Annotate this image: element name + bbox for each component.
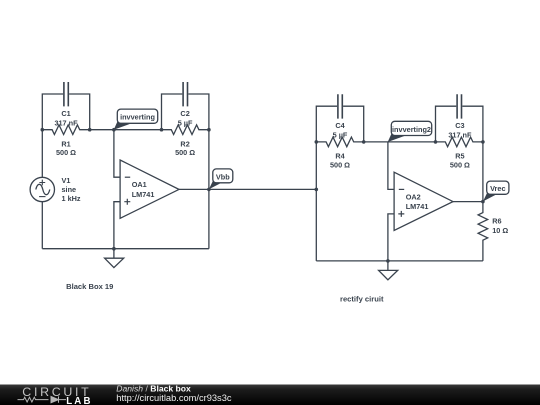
wire: V1 bottom lead [41,202,43,249]
resistor R2 [162,125,209,135]
node dot: R5/C3 left [434,140,438,144]
wire: R1 node to inverting node to R2 [90,129,162,131]
resistor R4 [316,137,363,147]
wire: C2 parallel loop [162,94,209,130]
svg-text:5 µF: 5 µF [333,131,348,140]
svg-text:invverting2: invverting2 [392,125,431,134]
node dot: Vbb at right block [315,188,319,192]
svg-text:rectify ciruit: rectify ciruit [340,294,384,303]
capacitor C2 [183,82,187,106]
voltage source V1 [30,177,54,201]
wire: feedback vertical C3/R5 to output node [482,142,484,202]
node dot: Vrec output [481,200,485,204]
wire: op-amp plus input to ground rail [114,202,120,249]
svg-text:R2: R2 [180,139,189,148]
node flag invverting [114,109,158,130]
node flag Vbb [209,169,233,189]
ground (left block) [113,249,115,259]
svg-text:LAB: LAB [66,396,93,405]
svg-text:C2: C2 [180,109,189,118]
svg-text:C1: C1 [61,109,70,118]
svg-text:Danish / Black box: Danish / Black box [116,383,191,393]
wire: V1 top lead [41,130,43,178]
node dot: C4/R4 left [315,140,319,144]
svg-text:317 nF: 317 nF [54,119,78,128]
svg-text:R5: R5 [455,152,464,161]
svg-text:500 Ω: 500 Ω [175,148,195,157]
node dot: R2/C2 left [160,128,164,132]
wire: OA1 output [179,188,209,190]
resistor R6 [478,202,488,261]
svg-text:1 kHz: 1 kHz [62,194,81,203]
svg-text:10 Ω: 10 Ω [492,226,508,235]
op-amp OA1 [120,160,179,218]
svg-text:sine: sine [62,185,77,194]
resistor R5 [436,137,483,147]
svg-text:500 Ω: 500 Ω [330,160,350,169]
footer bar [0,385,540,405]
svg-text:LM741: LM741 [132,190,155,199]
svg-text:V1: V1 [62,176,71,185]
wire: inverting2 node down to OA2 minus input [388,142,394,190]
node flag invverting2 [388,121,432,142]
node dot: left ground rail [112,247,116,251]
wire: C3 parallel loop [436,106,483,142]
svg-text:5 µF: 5 µF [178,119,193,128]
node dot: inverting [112,128,116,132]
wire: C1 parallel loop [42,94,89,130]
capacitor C4 [338,94,342,118]
wire: feedback vertical from C2/R2 down to bottom rail [208,130,210,249]
svg-text:Vrec: Vrec [490,184,505,193]
svg-text:Vbb: Vbb [216,172,230,181]
wire: C4 parallel loop [316,106,363,142]
ground (right block) [387,261,389,271]
node dot: C1/R1 left [41,128,45,132]
wire: right block left vertical [315,142,317,261]
svg-text:R1: R1 [61,139,70,148]
resistor R1 [42,125,89,135]
svg-text:OA1: OA1 [132,180,147,189]
capacitor C3 [457,94,461,118]
wire: right block bottom rail [316,260,483,262]
svg-text:317 nF: 317 nF [448,131,472,140]
svg-text:C3: C3 [455,121,464,130]
wire: inverting node down to op-amp minus input [114,130,120,178]
capacitor C1 [64,82,68,106]
node dot: Vbb output [207,188,211,192]
svg-text:R6: R6 [492,217,501,226]
svg-text:http://circuitlab.com/cr93s3c: http://circuitlab.com/cr93s3c [116,393,232,403]
wire: Vbb to right block [209,188,316,190]
op-amp OA2 [394,172,453,230]
footer logo resistor-diode glyph [18,396,67,402]
svg-text:500 Ω: 500 Ω [450,160,470,169]
svg-text:C4: C4 [335,121,345,130]
node dot: C1/R1 right [88,128,92,132]
node dot: R5/C3 right [481,140,485,144]
node dot: R2/C2 right [207,128,211,132]
wire: OA2 output [453,201,483,203]
svg-text:R4: R4 [335,152,345,161]
node dot: C4/R4 right [362,140,366,144]
svg-text:500 Ω: 500 Ω [56,148,76,157]
wire: left block bottom rail [42,248,209,250]
svg-text:OA2: OA2 [406,192,421,201]
node flag Vrec [483,181,509,201]
wire: OA2 plus input to ground rail [388,214,394,261]
svg-text:Black Box 19: Black Box 19 [66,282,113,291]
node dot: right ground rail [386,259,390,263]
svg-text:invverting: invverting [120,113,155,122]
svg-text:LM741: LM741 [406,202,429,211]
wire: R4 node to inverting2 node to R5 [364,141,436,143]
